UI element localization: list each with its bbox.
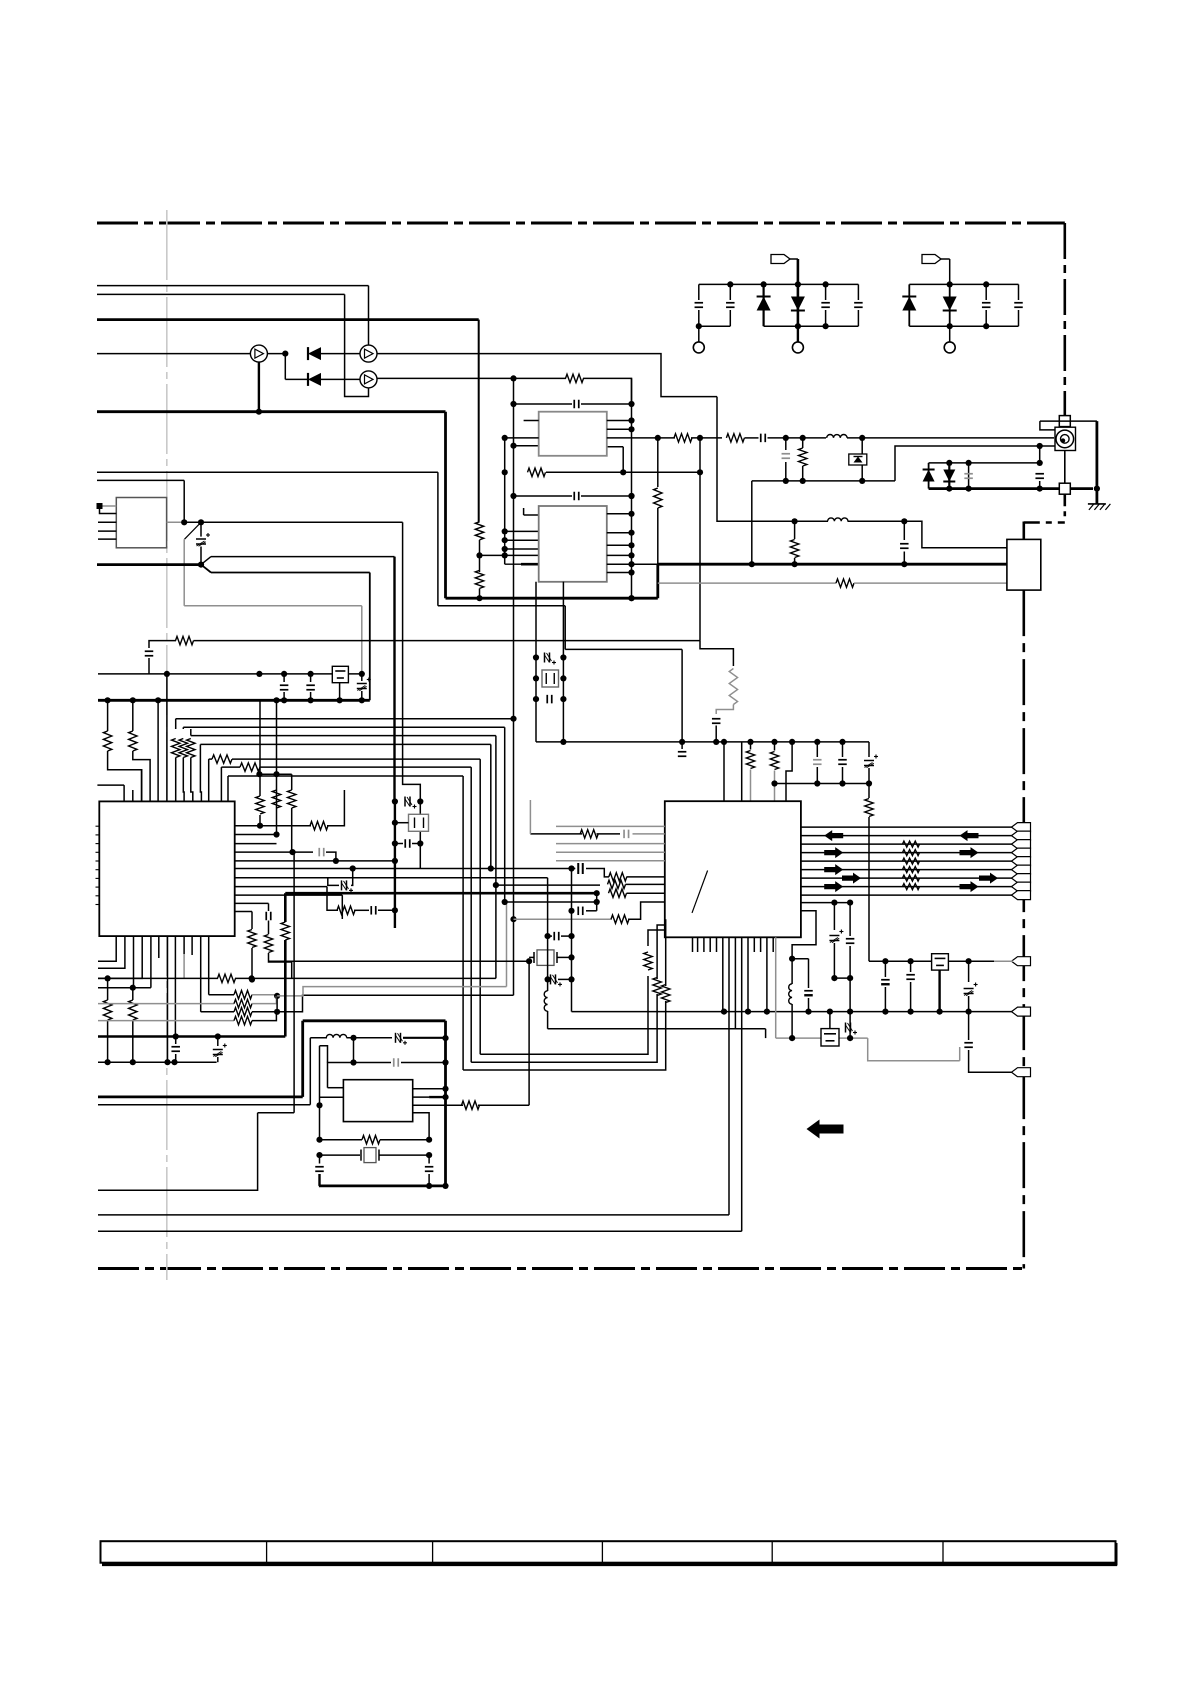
resistor R48 (234, 1008, 252, 1016)
junction J114 (937, 1009, 943, 1015)
wire D2 to Q4 (321, 378, 360, 380)
wire M1 drop2 (564, 606, 566, 650)
junction J16 (800, 478, 806, 484)
capacitor C21 (574, 400, 579, 409)
wire U2 bpin2 (133, 936, 135, 988)
junction J160 (568, 954, 574, 960)
revision table (101, 1541, 1118, 1565)
wire res col e upper (251, 912, 253, 930)
signal arrow A9 (right) (960, 881, 979, 892)
junction J3 (795, 281, 801, 287)
wire LC to conn (904, 521, 1007, 548)
resistor R20 (187, 739, 195, 758)
wire pull col b jog (133, 751, 150, 801)
IC U1 (sensor amp) (116, 498, 166, 548)
wire diode D6 leads (949, 284, 951, 326)
wire net K1 (97, 479, 184, 481)
wire row1 rise (327, 790, 344, 826)
junction J41 (510, 916, 516, 922)
wire res col e lower (251, 948, 253, 980)
wire U2 row8 (235, 886, 327, 888)
junction J143 (442, 1086, 448, 1092)
junction J65 (476, 552, 482, 558)
wire B1 left drop (175, 719, 177, 729)
capacitor C1 (695, 303, 704, 308)
junction J122 (273, 831, 279, 837)
junction J40 (510, 716, 516, 722)
resistor R14 (103, 731, 111, 751)
inductor L3 (789, 984, 792, 1004)
junction J69 (792, 561, 798, 567)
wire C51 right lead (412, 843, 420, 845)
resistor (bus) R@878.1 (903, 875, 920, 881)
frame: dash-dot border right lower (1022, 590, 1025, 1268)
wire pcap col low (217, 1057, 219, 1062)
net tag T4 (1012, 848, 1031, 857)
wire row 774 (259, 773, 291, 775)
junction J17 (859, 478, 865, 484)
wire ground row left (98, 1061, 217, 1063)
wire B2 left drop (182, 727, 184, 729)
wire split lower drop (369, 573, 371, 701)
capacitor C3 (821, 303, 830, 308)
junction J30 (308, 671, 314, 677)
capacitor C17 (280, 685, 289, 690)
wire thick ctrl col (284, 893, 287, 922)
junction J110 (827, 1009, 833, 1015)
wire RF line segment C (768, 437, 827, 439)
transistor Q1 (buffer) (250, 345, 267, 362)
signal arrow A7 (right) (960, 847, 979, 858)
junction J156 (392, 840, 398, 846)
wire fan row3 b (252, 1011, 277, 1013)
wire U2 bpin11 (208, 936, 210, 995)
wire R9 to col (583, 378, 632, 404)
resistor R55 (662, 985, 670, 1003)
wire U2 bpin4 (150, 936, 152, 988)
junction J119 (257, 823, 263, 829)
wire R30 lower (868, 817, 870, 961)
wire long return W1 (98, 1214, 729, 1216)
filter F3 (821, 1029, 839, 1046)
wire B1 right drop (513, 719, 515, 996)
wire U3 right bus (631, 378, 633, 598)
wire to test point E1 (698, 326, 700, 342)
wire U6 right pin b (607, 428, 632, 430)
resistor R28 (746, 751, 754, 769)
capacitor C44 (electrolytic) (213, 1044, 227, 1057)
wire R31 to cap (597, 833, 621, 835)
wire switch diagonal (185, 522, 202, 539)
junction J20 (1037, 460, 1043, 466)
capacitor C31 (578, 907, 583, 916)
wire bus split upper diagonal (201, 557, 211, 565)
wire U4 jog right (792, 911, 816, 959)
wire net M1 (97, 471, 438, 473)
resistor (bus) R@844.1 (903, 841, 920, 847)
wire R55 to U4 (664, 920, 667, 986)
U2 left tick 4 (96, 851, 100, 853)
junction J141 (442, 1035, 448, 1041)
wire cap C48 lead (319, 1155, 321, 1163)
wire U2 bpin9 (191, 936, 193, 955)
wire U4 bus line 1 (801, 826, 1013, 828)
wire U2 pin line top (97, 784, 124, 786)
capacitor C15 (712, 719, 721, 724)
resistor (bus) R@861.1 (903, 858, 920, 864)
net tag T7 (1012, 874, 1031, 883)
wire bus line B6a (221, 766, 240, 768)
wire thick loop bottom2 (319, 1185, 446, 1188)
wire U2 bpin3 (98, 936, 142, 978)
wire thick loop right (444, 1021, 447, 1186)
wire cap C36 upper (910, 961, 912, 972)
wire row6 cap branch (351, 869, 353, 886)
junction J123 (289, 849, 295, 855)
wire U3 pin stub b (505, 539, 539, 541)
wire cap col d (268, 903, 270, 911)
junction J121 (273, 771, 279, 777)
junction J95 (502, 899, 508, 905)
wire coil row a (310, 1037, 327, 1039)
pad: U1 pin1 pad (97, 503, 103, 509)
wire rail B head (403, 522, 421, 801)
junction J106 (721, 1009, 727, 1015)
junction J134 (130, 985, 136, 991)
junction J58 (628, 511, 634, 517)
junction J145 (442, 1183, 448, 1189)
junction J67 (628, 595, 634, 601)
resistor R26 (836, 579, 854, 587)
frame: dash-dot border right upper (1064, 223, 1067, 418)
wire thick ctrl col low (284, 940, 287, 1037)
wire X3 left lead (395, 822, 409, 824)
junction J138 (274, 1009, 280, 1015)
wire Q3 output long run (377, 354, 717, 397)
junction J94 (594, 890, 600, 896)
net tag T3 (1012, 840, 1031, 849)
wire long col P1 (751, 481, 753, 564)
junction J161 (568, 976, 574, 982)
wire U3 top cap row b (581, 495, 632, 497)
junction J144 (442, 1094, 448, 1100)
junction J45 (502, 537, 508, 543)
wire split upper drop (thick) (393, 557, 395, 802)
wire Q1 branch to D2 (285, 378, 308, 380)
wire L1 drop to Q3 (368, 286, 370, 346)
capacitor C20 (574, 492, 579, 501)
capacitor C26 (813, 760, 822, 765)
capacitor C50 (electrolytic) (405, 797, 417, 809)
wire tag1 lead (790, 258, 798, 260)
wire U4 bus line 5 (801, 860, 1013, 862)
wire bus line B1 (176, 718, 514, 720)
junction J14 (859, 435, 865, 441)
IC U2 (controller) (99, 801, 234, 936)
wire C28 lower (868, 768, 870, 784)
wire coil row c thick (403, 1037, 446, 1039)
resistor R50 (281, 922, 289, 940)
wire U3bus to thick (632, 563, 658, 565)
resistor R47 (234, 999, 252, 1007)
U2 left tick 7 (96, 877, 100, 879)
capacitor C42 (371, 906, 376, 915)
wire to RF filter row (717, 397, 795, 522)
wire xtal2 row2 b (379, 1154, 429, 1156)
wire gray rise (959, 1047, 961, 1061)
wire bus split lower diagonal (201, 565, 211, 573)
wire U4 bottom pin 9 (wrap W2) (741, 937, 743, 1231)
capacitor C18 (306, 685, 315, 690)
wire rail pin row (514, 445, 539, 447)
wire col 547 mid (547, 974, 549, 991)
wire B2 right drop (504, 727, 506, 902)
wire B6 left drop (220, 767, 222, 801)
wire C51 left lead (395, 843, 403, 845)
resistor R12 (gray) (729, 669, 737, 705)
wire net L2 (97, 293, 345, 295)
wire cap C12 leads (968, 463, 970, 489)
junction J148 (316, 1102, 322, 1108)
junction J79 (560, 739, 566, 745)
capacitor C53 (electrolytic) (551, 974, 563, 986)
wire thick ctrl row (285, 892, 596, 895)
resistor (bus) R@869.6 (903, 867, 920, 873)
wire net M2 jog (700, 641, 733, 666)
junction J109 (805, 1009, 811, 1015)
wire cap col h low (175, 1054, 177, 1062)
wire thick earth drop (1096, 421, 1099, 504)
wire B3 to U2 (191, 758, 193, 802)
wire col to R30 (868, 784, 870, 799)
junction J6 (795, 323, 801, 329)
frame: dash-dot jog horizontal (1024, 521, 1065, 524)
junction J46 (502, 546, 508, 552)
capacitor C32 (804, 991, 813, 996)
resistor R16 (212, 755, 232, 763)
resistor R49 (234, 1016, 252, 1024)
resistor (bus) R@886.6 (903, 884, 920, 890)
junction J25 (181, 519, 187, 525)
wire coil L3 upper (791, 959, 793, 984)
resistor R40 (337, 906, 355, 914)
wire low row 987 (98, 987, 151, 989)
junction J135 (105, 1059, 111, 1065)
junction J38 (337, 697, 343, 703)
junction J9 (983, 281, 989, 287)
junction J85 (789, 739, 795, 745)
wire U4 bottom pin 5 (716, 937, 718, 952)
junction J51 (510, 375, 516, 381)
wire row8 to rail (378, 909, 395, 911)
resistor R17 (240, 763, 260, 771)
wire U2 bpin0 (98, 936, 116, 961)
wire gnd seg right a (328, 1063, 354, 1088)
wire C29 to U4 (633, 833, 665, 835)
wire col 547 tail (547, 1011, 549, 1029)
wire C37 lower (968, 996, 970, 1012)
wire bus line B5b (232, 758, 480, 760)
wire U6 right pin a (607, 420, 632, 422)
junction J157 (417, 798, 423, 804)
capacitor C39 (964, 1043, 973, 1048)
wire C26 lower (816, 767, 818, 784)
wire RF line segment B (745, 437, 759, 439)
wire col d bottom (269, 953, 292, 962)
junction J73 (533, 654, 539, 660)
junction J26 (198, 519, 204, 525)
wire bus end drop (868, 742, 870, 757)
wire main ground row (572, 1011, 1014, 1013)
wire R33 to U4 (626, 883, 665, 885)
wire W col tail (98, 1113, 258, 1190)
capacitor C35 (881, 980, 890, 985)
wire rail cap row b (581, 403, 632, 405)
wire R29 upper (774, 742, 776, 751)
wire U5 pin L2 (320, 1096, 344, 1098)
capacitor C16 (145, 651, 154, 656)
wire net L4 input (97, 353, 250, 355)
junction J146 (350, 1035, 356, 1041)
wire ladder right rail (562, 582, 564, 742)
wire C16 lower (148, 658, 150, 674)
capacitor C34 (846, 939, 855, 944)
junction J149 (426, 1137, 432, 1143)
IC U6 (mixer) (539, 412, 607, 456)
U2 left tick 1 (96, 825, 100, 827)
junction J59 (628, 530, 634, 536)
IC U5 (VCO) (343, 1080, 412, 1122)
wire rail A (394, 802, 396, 929)
wire U3 right pin y=555.4 (607, 554, 632, 556)
resistor R31 (580, 830, 598, 838)
junction J151 (316, 1137, 322, 1143)
junction J1 (727, 281, 733, 287)
junction J19 (966, 460, 972, 466)
wire U5 pin R2 thick (429, 1096, 445, 1098)
resistor (bus) R@852.6 (903, 850, 920, 856)
wire cap C35 upper (884, 961, 886, 977)
wire low row 961 (269, 960, 530, 962)
junction J116 (789, 1035, 795, 1041)
wire col X4 feed (571, 869, 573, 1012)
wire bus line B5a (209, 758, 212, 760)
resistor R23 (475, 522, 483, 540)
resistor R29 (770, 752, 778, 770)
wire U3 pin top (524, 514, 539, 516)
wire diode D8 leads (948, 463, 950, 489)
capacitor C23 (electrolytic) (545, 653, 557, 665)
ground (chassis) (1088, 504, 1111, 510)
junction J50 (628, 493, 634, 499)
wire Q1 emitter thick (258, 362, 260, 412)
wire C27 lower (842, 767, 844, 784)
wire fan row2 b (252, 996, 276, 1004)
junction J33 (130, 697, 136, 703)
wire U2 row5 (235, 860, 395, 862)
junction R21 line (697, 469, 703, 475)
wire cap C34 upper (849, 903, 851, 936)
junction J64 (628, 595, 634, 601)
wire thick shield bus (929, 487, 1093, 490)
capacitor C43 (266, 912, 271, 921)
wire U2 pin top drop (123, 785, 125, 801)
junction J8 (947, 281, 953, 287)
signal arrow A5 (right) (824, 881, 843, 892)
U4 internal switch diagonal (692, 871, 708, 913)
wire pull col g lower (132, 1020, 134, 1062)
junction J44 (502, 528, 508, 534)
junction J126 (350, 865, 356, 871)
junction J131 (526, 958, 532, 964)
wire C48 to thick (318, 1174, 320, 1186)
wire C11 lead (785, 438, 787, 450)
wire thick loop top (303, 1019, 446, 1022)
junction J128 (249, 976, 255, 982)
wire gnd seg right b (354, 1062, 392, 1064)
wire long return W2 (98, 1230, 742, 1232)
capacitor C51 (405, 839, 410, 848)
resistor R19 (179, 739, 187, 758)
junction J36 (281, 697, 287, 703)
wire U3 thick pin b (521, 563, 539, 566)
wire U6 left pin c (505, 437, 539, 439)
junction J55 (628, 417, 634, 423)
wire fan row1 b (252, 995, 277, 996)
wire U2 top pin x141 (141, 770, 143, 802)
frame: dash-dot border top (97, 222, 1065, 225)
wire C17 lead (283, 674, 285, 682)
power tag VCC2 (922, 255, 941, 264)
wire diode D4 leads thick (797, 284, 800, 326)
wire fan link (276, 996, 278, 1012)
crystal X3 (409, 814, 429, 831)
junction J97 (568, 908, 574, 914)
junction J155 (392, 820, 398, 826)
wire Q4-line drop (left rail) (513, 378, 515, 718)
wire U4 gray stub y=852.2 (556, 851, 665, 853)
wire R25 col upper (657, 438, 659, 487)
junction J32 (105, 697, 111, 703)
net tag T10 (1012, 957, 1031, 966)
wire C5 lower lead (985, 310, 987, 326)
wire C3 lower lead (825, 310, 827, 326)
resistor R24 (475, 570, 483, 588)
wire C1 lower lead (698, 310, 700, 326)
junction J80 (679, 739, 685, 745)
wire R32 to U4 (627, 876, 665, 878)
wire Q4 output (377, 377, 514, 379)
wire U4 bottom pin 4 (709, 937, 711, 952)
wire tag2 lead (941, 258, 950, 260)
wire thick L5 drop (444, 412, 447, 599)
resistor R11 (799, 448, 807, 466)
signal arrow A4 (right) (842, 873, 861, 884)
junction J39 (359, 697, 365, 703)
resistor R8 (674, 434, 692, 442)
junction J101 (831, 975, 837, 981)
wire col3 lower (291, 962, 293, 978)
wire U2 row1 (235, 825, 311, 827)
wire U4 bus line 2 (801, 835, 1013, 837)
wire filter2 top bus (909, 283, 1018, 285)
wire B2 row (505, 901, 597, 903)
wire U2 row4 (235, 851, 313, 853)
wire fan row3 ext (277, 995, 513, 1012)
wire zener D3 leads (762, 284, 764, 326)
frame: solid drop into connector (1022, 522, 1025, 540)
junction J2 (761, 281, 767, 287)
